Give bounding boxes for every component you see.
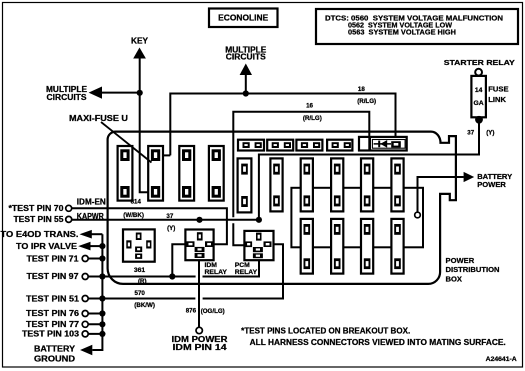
svg-text:IDM PIN 14: IDM PIN 14 <box>173 343 228 352</box>
svg-text:IDM-EN: IDM-EN <box>77 198 106 207</box>
svg-text:TEST PIN 51: TEST PIN 51 <box>26 294 80 303</box>
svg-text:361: 361 <box>134 267 146 274</box>
svg-text:TO E4OD TRANS.: TO E4OD TRANS. <box>1 230 79 239</box>
svg-text:BATTERY: BATTERY <box>34 344 76 353</box>
svg-text:FUSE: FUSE <box>488 84 508 93</box>
svg-text:(BK/W): (BK/W) <box>134 302 155 309</box>
svg-text:(Y): (Y) <box>167 225 175 232</box>
svg-text:ECONOLINE: ECONOLINE <box>218 13 268 23</box>
svg-text:CIRCUITS: CIRCUITS <box>226 52 266 61</box>
svg-text:LINK: LINK <box>488 95 506 104</box>
svg-text:37: 37 <box>166 213 173 220</box>
svg-text:814: 814 <box>131 198 142 205</box>
svg-text:0563 SYSTEM VOLTAGE HIGH: 0563 SYSTEM VOLTAGE HIGH <box>348 27 456 36</box>
svg-text:(R/LG): (R/LG) <box>357 98 376 105</box>
svg-text:GA: GA <box>473 100 483 107</box>
svg-text:*TEST PIN 70: *TEST PIN 70 <box>9 204 65 213</box>
svg-text:(R): (R) <box>138 278 147 285</box>
svg-text:14: 14 <box>475 87 483 94</box>
svg-text:*TEST PINS LOCATED ON BREAKOUT: *TEST PINS LOCATED ON BREAKOUT BOX. <box>241 327 410 336</box>
svg-text:GROUND: GROUND <box>34 354 75 363</box>
svg-text:37: 37 <box>467 129 474 136</box>
svg-text:STARTER RELAY: STARTER RELAY <box>444 58 515 67</box>
svg-text:TO IPR VALVE: TO IPR VALVE <box>16 242 77 251</box>
svg-text:ALL HARNESS CONNECTORS VIEWED: ALL HARNESS CONNECTORS VIEWED INTO MATIN… <box>250 338 506 347</box>
svg-text:RELAY: RELAY <box>235 269 258 276</box>
svg-text:TEST PIN 71: TEST PIN 71 <box>27 254 80 263</box>
svg-text:RELAY: RELAY <box>205 269 228 276</box>
svg-text:876: 876 <box>186 307 197 314</box>
svg-text:BOX: BOX <box>446 275 462 284</box>
svg-text:TEST PIN 77: TEST PIN 77 <box>26 320 79 329</box>
svg-text:18: 18 <box>358 86 365 93</box>
svg-text:POWER: POWER <box>477 180 506 189</box>
svg-text:570: 570 <box>135 290 146 297</box>
svg-text:(R/LG): (R/LG) <box>303 115 322 122</box>
svg-text:TEST PIN 103: TEST PIN 103 <box>22 330 80 339</box>
svg-text:CIRCUITS: CIRCUITS <box>47 93 87 102</box>
svg-text:(Y): (Y) <box>486 130 494 137</box>
svg-text:TEST PIN 55: TEST PIN 55 <box>14 215 65 224</box>
svg-text:KAPWR: KAPWR <box>77 212 104 221</box>
svg-text:(OG/LG): (OG/LG) <box>201 308 225 315</box>
svg-text:MAXI-FUSE U: MAXI-FUSE U <box>69 114 128 123</box>
svg-text:TEST PIN 97: TEST PIN 97 <box>27 272 79 281</box>
svg-text:POWER: POWER <box>446 256 475 265</box>
svg-text:(W/BK): (W/BK) <box>123 212 144 219</box>
svg-text:TEST PIN 76: TEST PIN 76 <box>26 309 80 318</box>
svg-text:A24641-A: A24641-A <box>486 356 518 363</box>
svg-text:16: 16 <box>306 103 313 110</box>
svg-text:DISTRIBUTION: DISTRIBUTION <box>446 265 500 274</box>
svg-text:KEY: KEY <box>131 37 149 46</box>
